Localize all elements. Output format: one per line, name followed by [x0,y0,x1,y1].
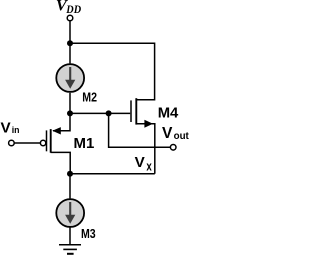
svg-text:M2: M2 [82,89,97,104]
svg-text:V: V [135,154,146,171]
svg-text:M1: M1 [74,135,95,152]
svg-text:in: in [12,125,20,136]
svg-text:out: out [174,131,189,142]
svg-text:M4: M4 [158,105,179,122]
svg-text:V: V [162,125,173,142]
svg-text:V: V [1,120,12,137]
svg-text:DD: DD [65,4,81,16]
svg-text:x: x [146,159,152,174]
svg-text:M3: M3 [81,226,96,241]
